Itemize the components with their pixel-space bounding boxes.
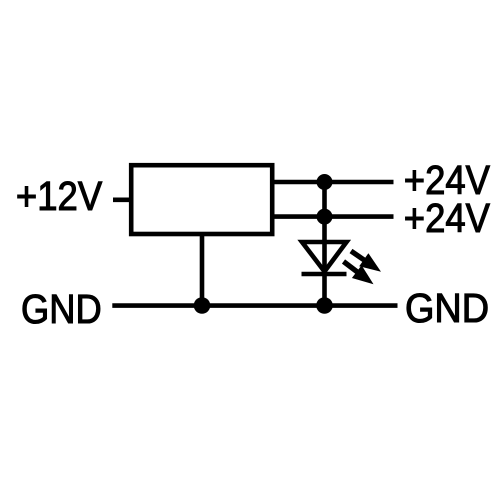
junction node LED ground xyxy=(316,297,333,314)
DC/DC converter U1 xyxy=(131,165,272,234)
wire converter ground vertical xyxy=(200,233,205,306)
LED D1 cathode bar xyxy=(302,272,347,277)
junction node converter ground xyxy=(194,297,211,314)
svg-text:+24V: +24V xyxy=(404,195,490,241)
wire +12V input xyxy=(113,198,132,203)
wire LED branch vertical xyxy=(322,182,327,306)
LED light arrow 2 xyxy=(344,262,374,285)
wire +24V output top xyxy=(271,180,394,185)
wire +24V output bottom xyxy=(271,214,394,219)
LED light arrow 1 xyxy=(351,251,381,272)
svg-text:+12V: +12V xyxy=(16,173,102,219)
junction node bottom +24V xyxy=(317,209,333,225)
svg-text:GND: GND xyxy=(405,285,489,331)
junction node top +24V xyxy=(317,174,333,190)
LED D1 triangle xyxy=(302,242,347,272)
wire GND bus xyxy=(112,303,397,308)
svg-text:GND: GND xyxy=(21,286,102,332)
